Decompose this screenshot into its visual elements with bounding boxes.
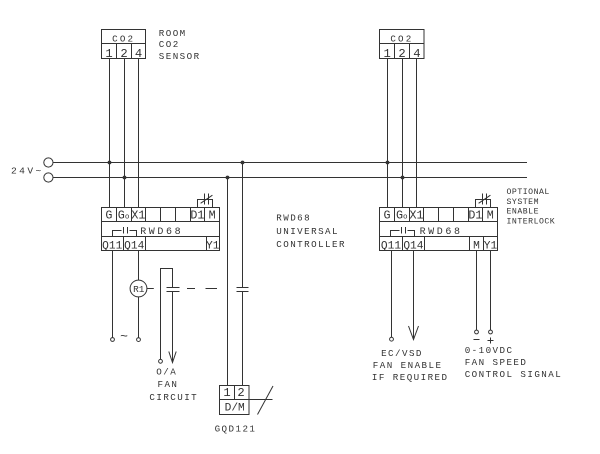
svg-text:CO2: CO2 <box>390 33 413 44</box>
svg-text:Q14: Q14 <box>124 240 144 252</box>
svg-text:SYSTEM: SYSTEM <box>507 198 539 207</box>
wire: U1 Q11 down to fan circuit <box>112 251 114 338</box>
svg-text:ENABLE: ENABLE <box>507 208 539 217</box>
annotation EC/VSD FAN ENABLE IF REQUIRED <box>372 348 449 383</box>
annotation OPTIONAL SYSTEM ENABLE INTERLOCK <box>507 188 556 226</box>
svg-text:D1: D1 <box>468 209 482 223</box>
wire: U2 M down to 0-10V minus <box>476 251 478 331</box>
open terminal at Q11 wire end <box>111 338 115 342</box>
wire: U2 Q11 down to EC/VSD <box>391 251 393 338</box>
U1 internal contact Q11-Q14 <box>113 227 137 237</box>
U2 internal contact Q11-Q14 <box>391 227 415 237</box>
mechanical link dashes <box>187 288 195 290</box>
open terminal below R1 <box>137 338 141 342</box>
24V supply terminal upper <box>44 158 53 167</box>
open terminal Y1 wire <box>489 330 493 334</box>
contact plates (right) <box>237 287 249 289</box>
wire: U2 Q14 down with arrow <box>413 251 415 340</box>
svg-text:M: M <box>209 209 216 223</box>
wire: U2 Y1 down to 0-10V plus <box>490 251 492 331</box>
svg-text:RWD68: RWD68 <box>276 213 311 224</box>
svg-text:1: 1 <box>223 386 230 400</box>
junction: pin2 wire on lower rail <box>123 176 127 180</box>
junction: GQD pin1 wire on lower rail <box>226 176 230 180</box>
annotation ROOM CO2 SENSOR <box>159 28 201 62</box>
room CO2 sensor box (left) <box>102 30 146 59</box>
minus sign <box>474 339 480 341</box>
svg-text:CO2: CO2 <box>112 33 135 44</box>
wire: contact to arrow <box>172 292 174 363</box>
junction: GQD pin2 wire on upper rail <box>241 161 245 165</box>
svg-text:CONTROLLER: CONTROLLER <box>276 239 346 250</box>
wire: left CO2 pin2 to G0 terminal <box>124 59 126 208</box>
wire: right CO2 pin4 to X1 terminal <box>416 59 418 208</box>
svg-text:FAN: FAN <box>158 379 179 390</box>
24V supply terminal lower <box>44 173 53 182</box>
svg-text:UNIVERSAL: UNIVERSAL <box>276 226 339 237</box>
wire: left CO2 pin4 to X1 terminal <box>138 59 140 208</box>
svg-text:~: ~ <box>120 329 128 344</box>
R1 right stub <box>147 288 154 290</box>
U1 link symbol over D1-M <box>198 194 213 208</box>
wire: right CO2 pin1 to G terminal <box>387 59 389 208</box>
wire: upper rail to contact (GQD pin2) <box>242 163 244 288</box>
junction: right pin2 wire on lower rail <box>401 176 405 180</box>
svg-text:CO2: CO2 <box>159 39 180 50</box>
svg-text:M: M <box>487 209 494 223</box>
actuator GQD121 box <box>220 386 250 415</box>
controller U2 RWD68 (right) outline <box>380 208 498 251</box>
svg-text:CIRCUIT: CIRCUIT <box>149 392 198 403</box>
U2 top row terminal dividers <box>395 208 483 222</box>
svg-text:OPTIONAL: OPTIONAL <box>507 188 550 197</box>
svg-text:D1: D1 <box>190 209 204 223</box>
arrow head EC/VSD enable <box>409 326 419 340</box>
device R1 circle <box>130 280 147 297</box>
svg-text:RWD68: RWD68 <box>140 227 183 238</box>
svg-text:Go: Go <box>118 209 130 223</box>
GQD121 D/M divider extended <box>220 399 273 401</box>
svg-text:G: G <box>383 209 390 223</box>
wire: right CO2 pin2 to G0 terminal <box>402 59 404 208</box>
wire: upper 24V rail <box>53 162 527 164</box>
second CO2 sensor box (right) <box>380 30 425 59</box>
U2 link symbol over D1-M <box>476 194 491 208</box>
svg-text:0-10VDC: 0-10VDC <box>465 345 514 356</box>
wire: contact to GQD121 pin2 <box>242 292 244 386</box>
GQD121 damper slash <box>258 386 274 415</box>
svg-text:G: G <box>105 209 112 223</box>
svg-text:X1: X1 <box>409 209 423 223</box>
wire: lower 24V rail <box>53 177 527 179</box>
wire: left CO2 pin1 to G terminal <box>109 59 111 208</box>
junction: pin1 wire on upper rail <box>108 161 112 165</box>
svg-text:SENSOR: SENSOR <box>159 51 201 62</box>
open terminal M wire <box>475 330 479 334</box>
annotation RWD68 UNIVERSAL CONTROLLER <box>276 213 346 250</box>
svg-text:O/A: O/A <box>156 366 177 377</box>
svg-text:CONTROL SIGNAL: CONTROL SIGNAL <box>465 369 563 380</box>
svg-text:FAN SPEED: FAN SPEED <box>465 357 528 368</box>
controller U1 RWD68 (left) outline <box>102 208 220 251</box>
svg-text:EC/VSD: EC/VSD <box>381 348 423 359</box>
open terminal on loop <box>159 359 163 363</box>
wire: R1 down to terminal <box>138 297 140 338</box>
wire: lower rail to GQD121 pin1 <box>227 178 229 386</box>
U2 bottom row terminal dividers <box>403 237 484 251</box>
svg-text:INTERLOCK: INTERLOCK <box>507 217 556 226</box>
svg-text:24V~: 24V~ <box>11 166 44 177</box>
svg-text:GQD121: GQD121 <box>215 423 257 434</box>
annotation 0-10VDC FAN SPEED CONTROL SIGNAL <box>465 345 563 380</box>
U1 top row terminal dividers <box>117 208 205 222</box>
svg-text:2: 2 <box>237 386 244 400</box>
open terminal at U2 Q11 wire <box>390 337 394 341</box>
plus sign <box>488 338 494 344</box>
svg-text:X1: X1 <box>131 209 145 223</box>
arrow head to O/A fan circuit <box>169 352 176 363</box>
contact plates (left) <box>167 287 180 289</box>
svg-text:ROOM: ROOM <box>159 28 187 39</box>
svg-text:RWD68: RWD68 <box>420 227 463 238</box>
svg-text:FAN ENABLE: FAN ENABLE <box>373 360 443 371</box>
annotation O/A FAN CIRCUIT <box>149 366 198 403</box>
svg-text:Go: Go <box>396 209 408 223</box>
wire: bypass loop to O/A fan circuit <box>161 269 173 360</box>
wire: U1 Q14 down to R1 <box>138 251 140 281</box>
svg-text:D/M: D/M <box>225 402 245 414</box>
junction: right pin1 wire on upper rail <box>386 161 390 165</box>
svg-text:IF REQUIRED: IF REQUIRED <box>372 372 449 383</box>
svg-text:R1: R1 <box>133 284 145 295</box>
svg-text:Y1: Y1 <box>206 240 220 252</box>
U1 bottom row terminal dividers <box>124 237 207 251</box>
